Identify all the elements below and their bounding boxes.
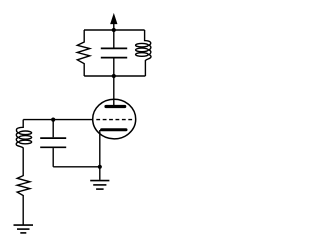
wire top tank bus [84,29,145,31]
power arrow to B+ [111,14,117,30]
grid (dashed) [96,119,134,121]
node junction top (arrow/C1) [112,28,116,32]
vacuum tube V1 triode [93,99,136,139]
cathode bar [102,128,126,131]
node junction cathode [98,165,102,169]
inductor L2 (grid coil) [16,120,31,160]
node junction bottom tank [112,74,116,78]
tube envelope [93,99,136,139]
resistor R2 (grid leak resistor) [17,160,30,225]
ground cathode [90,181,109,190]
wire cathode lead [99,130,101,180]
node junction grid/C2 [51,118,55,122]
plate (anode) bar [106,105,125,108]
ground grid return [14,225,34,233]
capacitor C2 (grid/feedback capacitor) [40,120,66,167]
inductor L1 (tank coil) [136,30,151,76]
wire cathode bypass [53,166,100,168]
wire grid lead [23,119,93,121]
capacitor C1 (tank capacitor) [101,30,127,76]
wire plate stem [113,76,115,105]
wire bottom tank bus [84,75,145,77]
resistor R1 (tank damping resistor) [77,30,90,76]
